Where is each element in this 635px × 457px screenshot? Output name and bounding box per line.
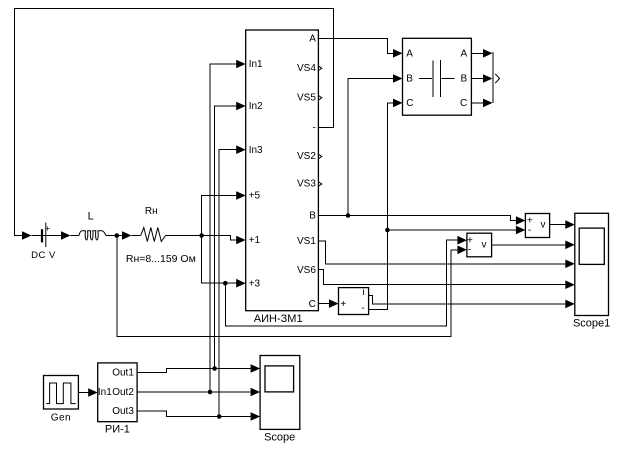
- Scope1 screen: [579, 228, 604, 264]
- wire node +3 down to v2 plus: [225, 240, 458, 326]
- wire node R up to port +5: [202, 196, 237, 236]
- svg-text:In3: In3: [249, 145, 263, 156]
- svg-text:-: -: [361, 303, 364, 314]
- wire port A to capacitor A input: [318, 39, 393, 54]
- terminator bar after capacitor outputs: [492, 52, 494, 103]
- wire DC- loop: from - port over top to battery: [15, 9, 334, 236]
- wire port VS1 to Scope1 input3: [318, 241, 565, 264]
- arrow capacitor output B: [483, 74, 493, 83]
- wire Out1 to Scope input1: [137, 369, 250, 373]
- arrow into Scope1 input3: [565, 260, 575, 269]
- arrow into Scope1 input5: [565, 300, 575, 309]
- arrow on wire into battery: [22, 231, 32, 240]
- block capacitor bank body: [403, 38, 472, 115]
- wire port C to current sensor: [318, 303, 329, 305]
- arrow into v1 plus: [516, 216, 526, 225]
- port chevron VS5: [319, 96, 322, 100]
- arrow into port In3: [236, 145, 246, 154]
- arrow into port +1: [236, 236, 246, 245]
- svg-text:-: -: [468, 245, 471, 256]
- block i current sensor body: [339, 288, 369, 315]
- capacitor icon left lead: [419, 78, 432, 80]
- svg-text:C: C: [406, 98, 413, 109]
- svg-text:In2: In2: [249, 101, 263, 112]
- svg-text:Rн=8...159 Ом: Rн=8...159 Ом: [126, 253, 196, 265]
- junction node C line to v1 minus: [385, 228, 390, 233]
- junction node after L: [115, 233, 120, 238]
- svg-text:C: C: [460, 98, 467, 109]
- wire inductor out to node after L: [106, 235, 123, 237]
- arrow into Scope input2: [251, 388, 261, 397]
- wire battery to arrow2: [32, 235, 63, 237]
- wire riser Out1 to In2: [215, 106, 237, 369]
- arrow capacitor output A: [483, 49, 493, 58]
- svg-text:VS1: VS1: [297, 236, 316, 247]
- svg-text:Out2: Out2: [112, 387, 134, 398]
- terminator chevron: [495, 74, 499, 83]
- svg-text:АИН-ЗМ1: АИН-ЗМ1: [254, 313, 303, 325]
- svg-text:Out3: Out3: [112, 406, 134, 417]
- wire riser Out2 to In1: [210, 64, 237, 392]
- svg-text:-: -: [528, 225, 531, 236]
- svg-text:Scope: Scope: [264, 432, 295, 444]
- block v2 voltmeter body: [467, 233, 492, 257]
- arrow into v2 minus: [457, 246, 467, 255]
- arrow into v1 minus: [516, 226, 526, 235]
- svg-text:+: +: [340, 299, 346, 310]
- svg-text:i: i: [362, 287, 364, 298]
- Gen square wave icon: [46, 383, 75, 404]
- svg-text:+1: +1: [249, 235, 261, 246]
- junction node R (after resistor): [199, 233, 204, 238]
- wire resistor to node R: [166, 235, 202, 237]
- svg-text:v: v: [482, 240, 487, 251]
- svg-text:РИ-1: РИ-1: [105, 424, 130, 436]
- block v1 voltmeter body: [525, 214, 549, 238]
- arrow into port +3: [236, 279, 246, 288]
- svg-text:B: B: [309, 211, 316, 222]
- svg-text:Scope1: Scope1: [573, 317, 610, 329]
- block Scope body: [260, 356, 300, 430]
- wire Gen to RI-1: [78, 392, 88, 394]
- svg-text:B: B: [461, 74, 468, 85]
- block Scope1 body: [575, 213, 609, 315]
- svg-text:A: A: [309, 34, 316, 45]
- junction node Out2/In1: [208, 390, 213, 395]
- arrow into capacitor C: [393, 99, 403, 108]
- port chevron VS3: [319, 182, 322, 186]
- svg-text:+: +: [45, 223, 50, 233]
- wire i output to Scope1 input5: [369, 295, 566, 304]
- svg-text:A: A: [461, 49, 468, 60]
- capacitor icon right lead: [442, 78, 455, 80]
- block RI-1 body: [98, 363, 137, 422]
- wire port VS6 to Scope1 input4: [318, 270, 565, 285]
- svg-text:VS3: VS3: [297, 179, 316, 190]
- arrow into v2 plus: [457, 236, 467, 245]
- wire riser Out3 to In3: [219, 150, 237, 417]
- svg-text:+3: +3: [249, 279, 261, 290]
- battery DC V short plate: [41, 229, 43, 242]
- svg-text:Gen: Gen: [51, 413, 71, 424]
- arrow into port +5: [236, 191, 246, 200]
- junction node +3: [223, 281, 228, 286]
- svg-text:L: L: [88, 211, 94, 223]
- arrow on wire into inductor: [61, 231, 71, 240]
- arrow into Scope1 input2: [565, 241, 575, 250]
- wire node Cline to v1 minus: [387, 229, 516, 231]
- inductor L coil: [79, 231, 106, 240]
- arrow capacitor output C: [483, 99, 493, 108]
- junction node Out1/In2: [212, 366, 217, 371]
- svg-text:VS2: VS2: [297, 151, 316, 162]
- wire node after L down to v2 minus: [117, 236, 458, 337]
- wire Out3 to Scope input3: [137, 411, 250, 417]
- capacitor icon right plate: [440, 60, 442, 97]
- svg-text:In1: In1: [98, 387, 112, 398]
- wire v2 output to Scope1 input2: [492, 244, 566, 246]
- svg-text:DC V: DC V: [31, 250, 56, 261]
- arrow into current sensor: [329, 299, 339, 308]
- svg-text:+5: +5: [249, 191, 261, 202]
- port chevron VS4: [319, 66, 322, 70]
- block Gen body: [44, 376, 79, 410]
- wire node B up to capacitor B input: [348, 79, 394, 216]
- arrow into RI-1 In1: [88, 388, 98, 397]
- arrow into Scope1 input1: [565, 220, 575, 229]
- svg-text:VS6: VS6: [297, 265, 316, 276]
- block АИН-ЗМ1 body: [246, 30, 319, 311]
- svg-text:In1: In1: [249, 59, 263, 70]
- arrow into capacitor A: [393, 49, 403, 58]
- wire i minus up to capacitor C input: [369, 103, 394, 310]
- arrow into port In2: [236, 102, 246, 111]
- arrow into Scope1 input4: [565, 280, 575, 289]
- wire port B to v1 plus: [318, 216, 516, 221]
- resistor Rн zigzag: [141, 228, 166, 242]
- wire Out2 to Scope input2: [137, 391, 250, 393]
- junction node Out3/In3: [217, 414, 222, 419]
- svg-text:-: -: [313, 123, 316, 134]
- wire v1 output to Scope1 input1: [550, 224, 566, 226]
- wire arrow3 to resistor: [132, 235, 141, 237]
- svg-text:v: v: [541, 220, 546, 231]
- wire node R down to port +3: [202, 236, 237, 284]
- wire capacitor outputs to terminator: [471, 52, 484, 54]
- arrow on wire into resistor: [122, 231, 132, 240]
- Scope screen: [265, 366, 294, 392]
- junction node B: [346, 213, 351, 218]
- svg-text:B: B: [406, 74, 413, 85]
- svg-text:VS4: VS4: [297, 63, 316, 74]
- port chevron VS2: [319, 154, 322, 158]
- svg-text:VS5: VS5: [297, 92, 316, 103]
- arrow into Scope input3: [251, 412, 261, 421]
- svg-text:Out1: Out1: [112, 368, 134, 379]
- arrow into Scope input1: [251, 364, 261, 373]
- svg-text:Rн: Rн: [145, 206, 158, 217]
- wire arrow2 to inductor: [71, 235, 80, 237]
- capacitor icon left plate: [432, 61, 434, 98]
- battery DC V long plate: [45, 223, 47, 248]
- svg-text:A: A: [406, 49, 413, 60]
- arrow into port In1: [236, 60, 246, 69]
- arrow into capacitor B: [393, 74, 403, 83]
- svg-text:C: C: [309, 299, 316, 310]
- wire node R to port +1: [202, 236, 237, 241]
